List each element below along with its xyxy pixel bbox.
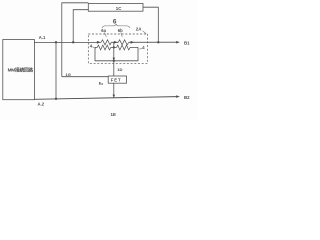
junction dot IC output/bus [157,41,159,43]
junction dot lower branch center [113,60,115,62]
wire vertical V1 input to bottom bus [55,42,57,99]
svg-text:1C: 1C [116,6,122,11]
svg-text:4: 4 [142,45,145,50]
arrowhead FET source down [113,95,116,98]
svg-text:6b: 6b [118,28,123,33]
leader 4 left [92,47,96,49]
leader 4 right [139,48,142,49]
FET box [108,76,126,83]
leader 6b [121,33,123,37]
signal source box M (MM cartridge circuit) [3,40,35,100]
svg-text:B1: B1 [184,40,190,45]
resistor 6a [101,40,111,45]
svg-text:E0: E0 [99,81,104,87]
wire main top bus from box to terminal [34,41,176,43]
leader 2A [143,31,147,34]
resistor 4 right [117,45,138,50]
svg-text:4: 4 [90,44,93,49]
wire vertical V2 to IC top and FET gate [62,3,89,77]
wire loop lower branch [95,47,138,60]
junction dot wiper/resistor row [113,46,115,48]
arrowhead on bus before 6a [97,41,101,44]
svg-text:6: 6 [113,19,117,26]
junction dot V1/bottom bus [55,98,57,100]
junction dot at V3/top bus [72,41,74,43]
svg-text:MM接続回路: MM接続回路 [8,66,34,73]
wire wiper tap vertical to FET drain [113,42,115,76]
svg-text:6a: 6a [101,28,106,33]
arrowhead wiper pointing down [113,58,116,61]
wire gate lead to FET [62,76,108,78]
junction dot at V1/top bus [55,41,57,43]
wire vertical V3 to IC lower input [73,10,88,43]
svg-text:B2: B2 [184,95,190,100]
wire FET source to bottom bus [113,83,115,98]
wire bottom bus [34,97,176,100]
svg-text:A.1: A.1 [39,35,46,40]
svg-text:FET: FET [111,78,122,83]
leader 6a [105,33,107,37]
IC box 1C [88,4,143,12]
wire IC output to main bus [143,7,158,42]
svg-text:1E: 1E [111,112,116,117]
svg-text:2A: 2A [136,26,142,31]
arrowhead output terminal B2 [176,95,180,98]
dashed box 2A [88,34,147,63]
arrowhead on bus after 6b [131,41,135,44]
resistor 4 left [95,45,117,50]
svg-text:1D: 1D [117,67,122,72]
arrowhead output terminal B1 [176,41,180,44]
svg-text:1G: 1G [66,72,71,77]
resistor 6b [118,40,129,45]
svg-text:A.2: A.2 [38,101,45,106]
brace over 6a 6b [102,24,130,28]
arrowhead on bus before 6b [114,41,118,44]
